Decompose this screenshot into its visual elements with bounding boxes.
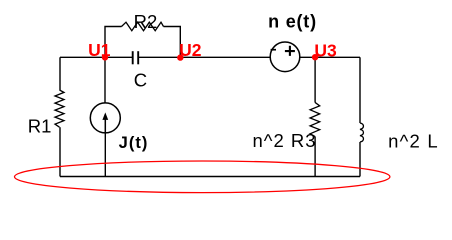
- resistor n^2 R3: [310, 102, 320, 136]
- node U1 dot: [102, 54, 108, 60]
- wire left vertical top (x=60, y 57.3 to 90): [59, 57, 61, 90]
- wire left vertical bottom: [59, 127, 61, 176]
- wire R3 to bottom: [314, 136, 316, 176]
- svg-text:R2: R2: [134, 11, 158, 32]
- wire top main horizontal left segment: [60, 56, 133, 58]
- inductor n^2 L coil: [360, 123, 363, 142]
- capacitor C right plate: [137, 51, 139, 64]
- svg-text:U2: U2: [179, 40, 202, 60]
- voltage source circle: [270, 42, 300, 72]
- voltage source plus sign: [285, 46, 295, 56]
- svg-text:C: C: [134, 69, 147, 90]
- wire loop left vertical (U1 up): [105, 27, 122, 58]
- wire loop right vertical (down to U2): [164, 27, 181, 58]
- ground-loop highlight ellipse: [15, 161, 390, 193]
- current source J circle: [90, 103, 120, 133]
- wire source right to top-right corner: [300, 56, 360, 58]
- svg-text:n e(t): n e(t): [268, 11, 317, 31]
- wire right vertical bottom: [359, 142, 361, 177]
- svg-text:J(t): J(t): [119, 134, 149, 152]
- svg-text:n^2 R3: n^2 R3: [252, 130, 316, 151]
- svg-text:U3: U3: [314, 40, 337, 60]
- current source arrow shaft: [104, 119, 106, 133]
- svg-text:U1: U1: [88, 40, 111, 60]
- wire U3 down to R3: [314, 57, 316, 102]
- svg-text:R1: R1: [28, 116, 52, 137]
- wire U1 down to current source: [104, 57, 106, 103]
- voltage source minus sign: [271, 49, 276, 51]
- resistor R2: [122, 22, 164, 31]
- wire bottom horizontal: [60, 176, 360, 178]
- wire current source to bottom: [104, 133, 106, 177]
- wire right vertical top (down to inductor): [359, 57, 361, 123]
- capacitor C left plate: [132, 51, 134, 64]
- current source arrow head: [102, 112, 108, 120]
- node U3 dot: [312, 54, 318, 60]
- wire main horizontal between capacitor and source: [138, 56, 270, 58]
- node U2 dot: [177, 54, 183, 60]
- resistor R1: [55, 90, 64, 127]
- svg-text:n^2 L: n^2 L: [388, 131, 439, 152]
